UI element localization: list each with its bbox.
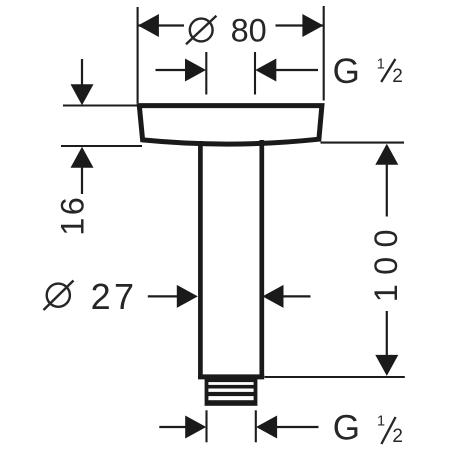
dim100 down arrowhead	[375, 355, 398, 376]
ghalf top left tick	[205, 52, 207, 95]
dim16 top extension line	[63, 104, 140, 106]
pipe left edge	[198, 141, 203, 377]
diameter symbol top circle	[190, 19, 213, 42]
svg-text:G: G	[333, 408, 360, 447]
dim27 left tail	[148, 295, 179, 297]
dim80 left arrowhead	[138, 14, 159, 37]
dim80 right extension line	[323, 6, 325, 101]
dim100 lower tail	[386, 311, 388, 357]
ghalf bottom right tail	[275, 426, 318, 428]
dim80 line right segment	[276, 24, 324, 26]
dim80 left extension line	[137, 7, 139, 103]
dim100 upper tail	[386, 163, 388, 217]
dim80 line left segment	[138, 24, 184, 26]
dim16 upper tail	[81, 59, 83, 87]
svg-text:16: 16	[55, 195, 91, 236]
dim16 lower tail	[81, 166, 83, 194]
pipe right edge	[259, 140, 264, 377]
dim100 bottom extension line	[265, 376, 405, 378]
ghalf bottom left arrowhead	[185, 416, 206, 439]
ceiling flange outline	[139, 106, 322, 144]
ghalf top left tail	[156, 69, 188, 71]
ghalf bottom right arrowhead	[256, 416, 277, 439]
dim16 bottom extension line	[61, 145, 142, 147]
dim100 top extension line	[321, 142, 405, 144]
ghalf bottom left tick	[205, 410, 207, 442]
dim27 right arrowhead	[263, 285, 284, 308]
dim100 up arrowhead	[375, 144, 398, 165]
ghalf top right arrowhead	[255, 59, 276, 82]
diameter symbol left slash	[44, 281, 74, 311]
svg-text:80: 80	[231, 13, 267, 49]
pipe bottom step	[198, 374, 264, 379]
svg-text:1: 1	[377, 56, 385, 72]
ghalf bottom right tick	[255, 410, 257, 442]
dim80 right arrowhead	[302, 14, 323, 37]
thread stripe 3	[208, 396, 253, 400]
fraction bottom slash	[381, 417, 395, 444]
dim16 down arrowhead	[71, 84, 94, 105]
svg-text:1: 1	[377, 414, 385, 430]
svg-text:27: 27	[91, 276, 138, 317]
ghalf bottom left tail	[159, 426, 188, 428]
ghalf top left arrowhead	[185, 59, 206, 82]
dim27 left arrowhead	[177, 285, 198, 308]
ghalf top right tail	[274, 69, 318, 71]
svg-text:2: 2	[392, 426, 403, 447]
thread stripe 2	[208, 389, 253, 392]
fraction top slash	[381, 59, 395, 82]
ghalf top right tick	[254, 52, 256, 95]
svg-text:G: G	[333, 52, 360, 91]
dim16 up arrowhead	[71, 147, 94, 168]
dim27 right tail	[282, 295, 311, 297]
threaded collar	[205, 377, 258, 406]
diameter symbol top slash	[186, 16, 216, 45]
diameter symbol left circle	[47, 284, 70, 307]
thread stripe 1	[208, 382, 253, 385]
svg-text:100: 100	[368, 220, 404, 302]
svg-text:2: 2	[392, 66, 403, 87]
